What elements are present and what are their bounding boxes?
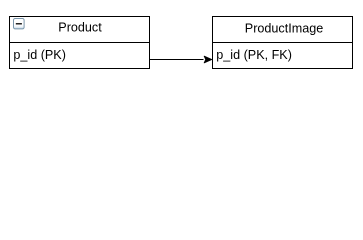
- svg-text:ProductImage: ProductImage: [245, 22, 323, 36]
- collapse icon (minus box) on Product: [14, 19, 25, 29]
- arrowhead into ProductImage: [204, 56, 212, 63]
- svg-text:p_id (PK): p_id (PK): [13, 48, 66, 62]
- entity ProductImage (table outline): [213, 17, 353, 69]
- svg-text:Product: Product: [58, 20, 102, 34]
- ProductImage title/attribute divider: [213, 42, 353, 44]
- Product title/attribute divider: [10, 42, 150, 44]
- wire: Product p_id to ProductImage p_id: [150, 59, 204, 61]
- entity Product (table outline): [10, 17, 150, 69]
- svg-text:p_id (PK, FK): p_id (PK, FK): [216, 48, 292, 62]
